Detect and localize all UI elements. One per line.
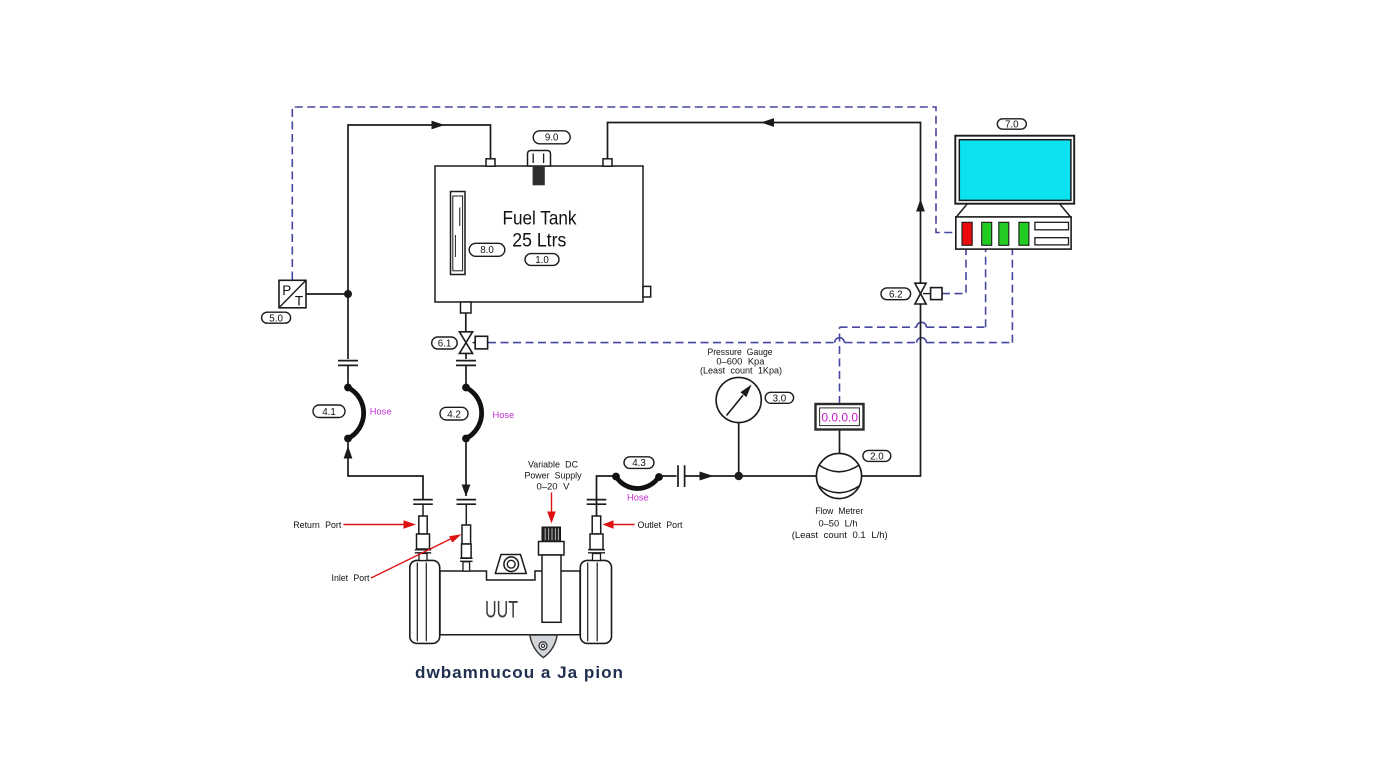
svg-text:0–50 L/h: 0–50 L/h [819,518,858,529]
svg-text:Flow Metrer: Flow Metrer [815,506,863,517]
flow arrow left on top-right pipe [761,118,774,127]
svg-text:Inlet Port: Inlet Port [332,573,370,584]
power connector knob [539,527,565,622]
union coupling on return line [338,361,358,366]
union coupling above outlet port [587,500,607,505]
label bubble 5.0 P/T sensor [262,312,291,324]
svg-text:9.0: 9.0 [545,133,559,144]
svg-text:UUT: UUT [485,597,518,624]
svg-text:8.0: 8.0 [480,245,494,256]
pressure gauge 3.0 dial [716,377,761,422]
svg-text:(Least count 1Kpa): (Least count 1Kpa) [700,366,782,377]
fuel tank right side port [643,286,651,297]
svg-text:Power Supply: Power Supply [525,470,582,481]
junction node at P/T tap [344,290,352,298]
svg-text:6.1: 6.1 [438,339,452,350]
annotation arrow DC power supply [547,493,556,524]
flow arrow right on top-left pipe [432,121,445,130]
wire hop of 6.1 bus over black pipe [917,338,927,343]
monitor 7.0 screen [955,136,1074,204]
union coupling on pump discharge line [678,465,685,487]
label bubble 4.3 hose [624,457,654,469]
label bubble 6.1 valve [432,337,458,350]
label bubble 8.0 sight glass [469,243,505,256]
signal wire bus P/T sensor 5.0 to monitor 7.0 (dashed) [292,107,955,280]
svg-text:4.3: 4.3 [632,458,646,469]
pipe tank bottom port to valve 6.1 [465,313,467,332]
hose 4.2 flexible arc [466,388,482,439]
valve 6.2 body [915,283,942,304]
svg-text:3.0: 3.0 [773,394,787,405]
signal wire valve 6.1 to monitor 7.0 (dashed) [488,249,1012,342]
text pressure gauge caption [700,347,782,377]
P/T sensor 5.0 [279,280,306,308]
svg-text:7.0: 7.0 [1005,120,1019,131]
svg-text:25 Ltrs: 25 Ltrs [512,231,566,252]
svg-text:T: T [295,294,303,309]
filler cap 9.0 [528,151,551,186]
pipe flow meter to right riser [862,304,921,476]
svg-text:Hose: Hose [627,492,649,502]
svg-text:P: P [282,283,291,298]
flow arrow down on inlet line [462,485,471,497]
annotation arrow Return Port [344,520,417,528]
label bubble 4.2 hose [440,407,468,420]
UUT bottom nozzle [530,635,557,658]
hose 4.1 flexible arc [348,388,364,439]
pipe hose 4.1 down to return port corner [348,439,423,500]
svg-text:Hose: Hose [370,406,392,416]
flow arrow right on pump line [700,472,714,481]
text variable DC power supply caption [525,459,582,492]
label bubble 3.0 pressure gauge [765,392,793,404]
pipe junction down to union above hose 4.1 [347,294,349,359]
flow meter 2.0 body [816,453,861,498]
fuel tank 1.0 shell [435,166,643,302]
UUT mounting bracket [495,555,526,574]
UUT right end cap [580,560,611,643]
outlet port fitting [588,516,605,561]
monitor stand lines [956,204,1070,217]
pipe right riser to fuel tank top right port [608,123,921,284]
svg-text:6.2: 6.2 [889,289,903,300]
svg-text:1.0: 1.0 [535,255,549,266]
label bubble 6.2 valve [881,288,911,301]
signal wire display 2.0 to monitor 7.0 (dashed) [840,249,986,404]
junction node pressure gauge tap [735,472,743,480]
svg-text:0–20 V: 0–20 V [537,481,571,492]
annotation arrow Inlet Port [371,534,462,578]
flow arrow up on return line [344,446,353,459]
svg-text:0.0.0.0: 0.0.0.0 [821,411,858,425]
valve 6.1 body [459,332,487,354]
label bubble 2.0 flow meter [863,450,891,462]
UUT left end cap [410,560,440,643]
svg-text:Outlet Port: Outlet Port [638,520,683,531]
digital display 2.0 [816,404,864,430]
union coupling above return port [413,500,433,505]
svg-text:5.0: 5.0 [269,313,283,324]
label bubble 9.0 filler cap [533,131,570,144]
svg-text:Variable DC: Variable DC [528,459,578,470]
svg-text:Fuel Tank: Fuel Tank [503,209,577,230]
label bubble 7.0 monitor [997,119,1026,131]
flow arrow up on right riser [916,199,925,212]
sight glass 8.0 [451,192,466,275]
svg-text:Hose: Hose [493,410,515,420]
pipe union to hose 4.1 [347,365,349,386]
annotation arrow Outlet Port [603,520,635,528]
pipe hose 4.3 to union on pump line [659,475,677,477]
text flow meter caption [792,506,888,541]
hose 4.3 flexible arc [616,477,659,489]
svg-text:4.2: 4.2 [447,409,461,420]
signal wire valve 6.2 to monitor 7.0 (dashed) [942,249,966,293]
svg-text:Return Port: Return Port [293,520,341,531]
fuel tank bottom port [461,302,472,313]
inlet port fitting [460,525,473,571]
pipe from return line up to fuel tank top left port [348,125,491,294]
svg-text:dwbamnucou a Ja pion: dwbamnucou a Ja pion [415,663,624,682]
union coupling on inlet line [456,361,476,366]
pipe union to flow meter [685,475,817,477]
UUT pump body [440,571,580,635]
return port fitting [415,516,431,561]
pipe display 2.0 to flow meter [839,430,841,454]
pipe hose 4.2 down to inlet port [465,439,467,497]
svg-text:4.1: 4.1 [322,407,336,418]
svg-text:2.0: 2.0 [870,452,884,463]
pipe gauge tap riser [738,423,740,476]
pipe valve 6.1 to union above hose 4.2 [465,353,467,359]
pipe P/T sensor to junction [306,293,348,295]
wire hop of 6.1 bus over display bus [835,338,845,343]
wire hop of display bus over black pipe [917,322,927,327]
pipe outlet port up and right to hose 4.3 [597,476,617,516]
fuel tank top left port [486,159,495,166]
label bubble 4.1 hose [313,405,345,418]
monitor base unit [956,217,1071,249]
fuel tank top right port [603,159,612,166]
union coupling above inlet port [457,500,477,505]
label bubble 1.0 fuel tank [525,254,559,267]
svg-text:(Least count 0.1 L/h): (Least count 0.1 L/h) [792,530,888,541]
